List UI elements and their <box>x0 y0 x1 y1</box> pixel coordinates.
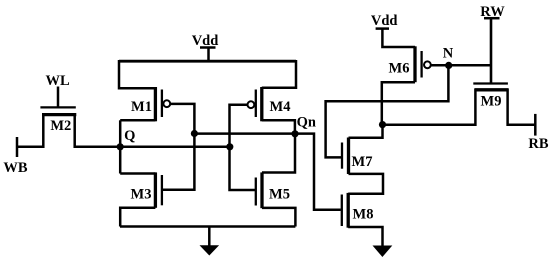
wire M4 drain to Qn <box>262 120 295 133</box>
wire node Q line <box>120 146 230 149</box>
transistor M3 channel <box>154 172 157 207</box>
wire M3 drain to bottom rail <box>120 208 155 227</box>
wire right rail to M4 source <box>262 60 296 88</box>
svg-text:M2: M2 <box>50 118 71 134</box>
wire left rail to M1 source <box>119 60 155 88</box>
transistor M6 channel <box>413 46 416 82</box>
wire RW stem to M9 gate <box>490 18 493 83</box>
svg-text:Q: Q <box>124 128 135 144</box>
node M6-M7-M9 junction dot <box>379 121 386 128</box>
wire Vdd right stem to M6 source <box>382 29 415 47</box>
wire M1 gate to Qn line and M3 gate <box>162 104 195 190</box>
wire M7 drain to M8 source <box>348 174 383 194</box>
node Qn junction dot <box>291 130 298 137</box>
power Vdd right T-bar <box>376 27 389 30</box>
svg-text:RB: RB <box>528 136 548 152</box>
svg-text:M9: M9 <box>481 94 502 110</box>
wire ground stem mid <box>208 227 211 247</box>
wire WL stem <box>57 87 60 108</box>
terminal RB bar <box>534 114 537 136</box>
transistor M8 channel <box>347 193 350 228</box>
transistor M2 channel <box>42 113 76 116</box>
wire M9 drain to RB <box>508 89 536 125</box>
transistor M6 bubble <box>424 61 431 68</box>
transistor M7 gate bar <box>341 143 343 169</box>
wire N down to M7 gate <box>326 65 449 157</box>
node Q junction dot <box>117 143 124 150</box>
transistor M4 gate bar <box>255 90 257 118</box>
svg-text:Vdd: Vdd <box>371 13 398 29</box>
transistor M3 gate bar <box>161 175 163 205</box>
transistor M6 gate bar <box>420 51 422 78</box>
wire N to RW stem <box>449 64 491 67</box>
node Qn-line junction dot <box>191 130 198 137</box>
wire M2 source to WB <box>17 114 43 147</box>
wire M9 source to junction <box>383 89 476 125</box>
wire M8 drain to ground <box>348 227 382 247</box>
svg-text:Qn: Qn <box>297 114 316 130</box>
svg-text:N: N <box>443 46 454 62</box>
wire Q vertical through dot <box>119 120 122 173</box>
node N junction dot <box>445 62 452 69</box>
wire top rail <box>119 60 296 63</box>
wire M2 drain to node Q <box>75 114 120 147</box>
wire M1 drain to Q <box>120 119 155 122</box>
wire Qn vertical to M5 source <box>262 134 295 173</box>
transistor M5 gate bar <box>255 178 257 206</box>
ground mid triangle <box>200 245 220 255</box>
wire Vdd stem <box>207 48 210 62</box>
svg-text:M1: M1 <box>131 99 152 115</box>
terminal RW T-bar <box>484 17 500 20</box>
svg-text:M7: M7 <box>352 154 373 170</box>
transistor M9 channel <box>475 88 509 91</box>
terminal WB bar <box>16 137 19 157</box>
svg-text:M5: M5 <box>269 187 290 203</box>
transistor M1 channel <box>154 87 157 121</box>
transistor M5 channel <box>260 172 263 208</box>
svg-text:M4: M4 <box>270 99 291 115</box>
node Q-M4gate junction dot <box>226 143 233 150</box>
wire junction down to M7 source <box>349 125 383 138</box>
transistor M1 bubble <box>163 100 170 107</box>
ground right triangle <box>373 246 393 258</box>
transistor M4 bubble <box>248 101 255 108</box>
svg-text:M8: M8 <box>353 207 374 223</box>
power Vdd left T-bar <box>200 46 216 49</box>
transistor M1 gate bar <box>161 90 163 118</box>
wire Qn line <box>194 134 340 210</box>
wire M4 gate to Q line and M5 gate <box>230 105 256 190</box>
transistor M2 gate bar <box>40 106 75 108</box>
transistor M8 gate bar <box>341 195 343 227</box>
wire M6 drain down <box>382 82 415 124</box>
svg-text:M3: M3 <box>131 187 152 203</box>
wire M3 source top <box>120 172 155 175</box>
transistor M4 channel <box>260 87 263 121</box>
transistor M9 gate bar <box>473 82 508 84</box>
svg-text:M6: M6 <box>389 61 410 77</box>
wire M6 gate bubble to node N <box>431 64 449 67</box>
wire M5 drain to bottom rail <box>262 208 295 227</box>
wire bottom rail <box>120 225 295 228</box>
transistor M7 channel <box>347 138 350 175</box>
svg-text:WB: WB <box>3 160 28 176</box>
